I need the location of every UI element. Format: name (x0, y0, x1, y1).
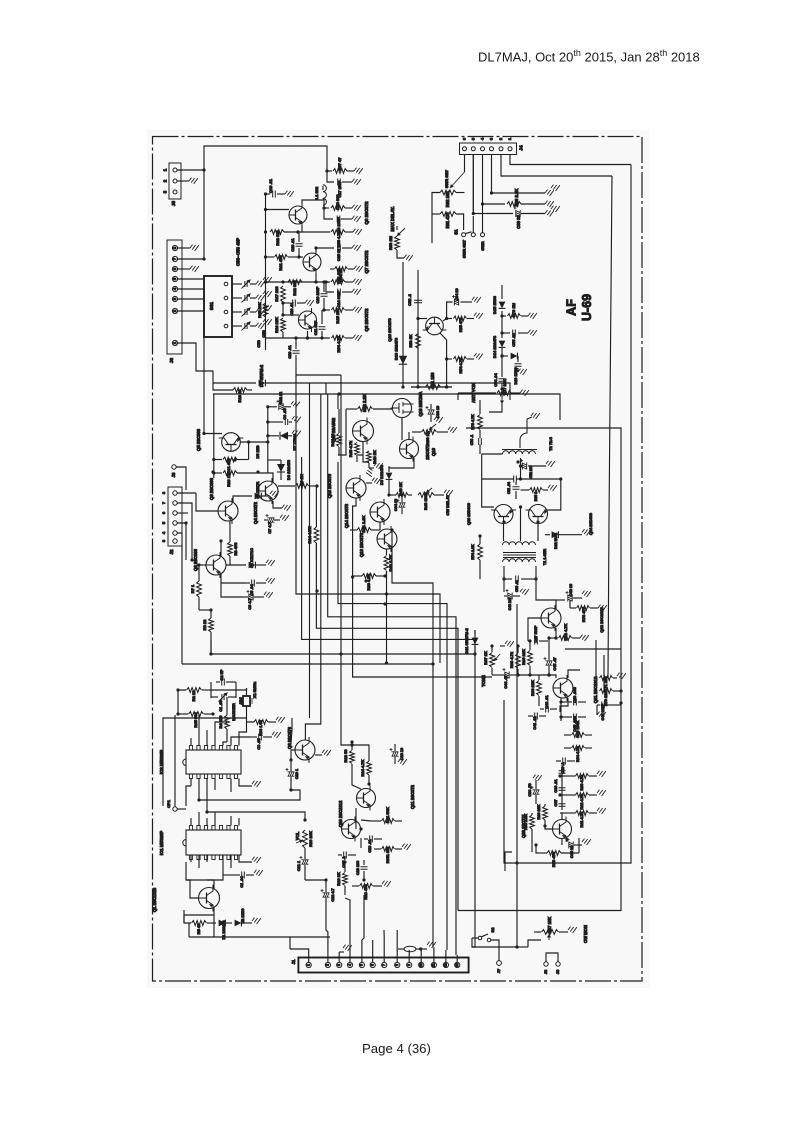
resistor R65 100K (572, 733, 585, 738)
wire S2 (472, 937, 478, 939)
box bottom right of Q22 (565, 648, 621, 650)
svg-text:R10 1W: R10 1W (226, 472, 231, 487)
capacitor C60 33 electrolytic (473, 155, 513, 214)
svg-text:J4: J4 (519, 145, 524, 151)
capacitor C11 39P (319, 327, 326, 330)
vertical wire x346 (338, 409, 346, 455)
transformer T2 winding (503, 451, 536, 454)
svg-text:S3 XZ171C: S3 XZ171C (250, 548, 254, 568)
svg-text:S1: S1 (454, 229, 459, 235)
svg-text:Q13 2SC373: Q13 2SC373 (359, 532, 364, 557)
svg-text:R60 2.2K: R60 2.2K (514, 189, 519, 207)
capacitor C19 200P vertical (321, 294, 328, 297)
svg-text:C17 150P: C17 150P (338, 180, 342, 197)
svg-text:MAX DELAY.: MAX DELAY. (390, 207, 395, 232)
resistor R951 650 (382, 847, 395, 852)
transistor Q13 2SC373 (377, 526, 397, 552)
svg-text:C7 4.7: C7 4.7 (268, 522, 272, 533)
potentiometer R20 10K VOL (303, 830, 308, 848)
junction (387, 493, 390, 496)
junction (500, 354, 503, 357)
junction (264, 192, 267, 195)
wire Q1 collector (207, 880, 214, 889)
svg-text:R61 470: R61 470 (278, 255, 283, 271)
svg-text:R13 22: R13 22 (237, 389, 242, 403)
resistor R13 22 (233, 388, 247, 393)
svg-text:U-69: U-69 (580, 294, 594, 321)
capacitor C16 .01 (283, 302, 290, 304)
resistor R62 4.7K ladder (562, 794, 576, 796)
svg-text:Q23 2SD380: Q23 2SD380 (467, 503, 471, 525)
svg-text:C1 .05: C1 .05 (219, 700, 223, 711)
svg-text:X1 5MHz: X1 5MHz (252, 682, 257, 698)
junction (516, 460, 519, 463)
svg-text:R42 2.2K: R42 2.2K (362, 394, 367, 412)
svg-text:Q1 2SC1318: Q1 2SC1318 (152, 887, 157, 912)
long wires from IC area right (246, 790, 300, 800)
svg-text:R44 22: R44 22 (330, 433, 335, 447)
wire base Q8 (266, 209, 290, 211)
diode D9 1S2473 (386, 473, 393, 480)
wire Q8 emitter (301, 226, 303, 232)
capacitor C41 .22 (535, 713, 538, 720)
resistor R54 4.7K (447, 358, 452, 360)
svg-text:C29 .01: C29 .01 (368, 839, 372, 852)
wire top rail into amp (266, 193, 271, 195)
junction (558, 774, 561, 777)
junction (324, 878, 327, 881)
connector J6 (167, 240, 182, 354)
svg-text:R77 10K: R77 10K (502, 379, 507, 395)
svg-text:Q20 2SC711: Q20 2SC711 (521, 813, 526, 838)
jack J9 key (556, 962, 560, 966)
resistor R4 220 vertical (225, 715, 230, 729)
wires Q2 block (221, 574, 246, 583)
diode D4 XZ171 (233, 496, 252, 502)
svg-text:R95 560: R95 560 (193, 712, 198, 728)
svg-text:C11 39P: C11 39P (314, 320, 318, 335)
svg-text:CP1: CP1 (166, 799, 171, 808)
svg-text:R15 10K: R15 10K (257, 302, 262, 318)
resistor R61 470 (275, 255, 288, 260)
diode D12 MV-2 (545, 534, 550, 536)
junction (209, 608, 212, 611)
ground at J6 pin8 (178, 247, 190, 249)
loop wire E (182, 663, 433, 665)
svg-text:R58 470: R58 470 (551, 851, 556, 867)
svg-text:C2 5P: C2 5P (219, 669, 224, 680)
svg-text:C48 100: C48 100 (508, 597, 512, 610)
wire J4 pin4 lower run (482, 204, 484, 225)
svg-text:R41 2.2K: R41 2.2K (361, 515, 366, 532)
svg-text:R2 22: R2 22 (191, 690, 196, 701)
transistor Q3 2SC368 (218, 498, 238, 524)
svg-text:D5 1N0: D5 1N0 (256, 446, 260, 459)
resistor R69 22K vertical (528, 651, 533, 666)
resistor R72 4.7K (555, 628, 557, 638)
wires ladder spine (561, 765, 563, 810)
svg-text:C1 .04: C1 .04 (240, 876, 244, 888)
svg-text:J5: J5 (171, 201, 176, 207)
capacitor C1 .047 (242, 872, 245, 879)
transistor Q12 2SC372 (357, 786, 376, 811)
svg-text:D15 1N60: D15 1N60 (492, 295, 497, 314)
svg-text:C14 300P: C14 300P (337, 290, 341, 307)
capacitor C40 .1 (563, 758, 566, 765)
capacitor C25 .1 (344, 852, 347, 859)
wire J6 pin1 run (178, 343, 213, 383)
junction (536, 520, 539, 523)
svg-text:R63 4.7K: R63 4.7K (580, 774, 584, 790)
svg-text:7: 7 (382, 964, 386, 966)
svg-text:R16 22K: R16 22K (274, 317, 279, 333)
right vertical to Q24 base (548, 479, 561, 510)
junction (315, 589, 318, 592)
svg-text:12: 12 (444, 963, 448, 967)
jack J7 mono (497, 961, 502, 966)
svg-text:C37: C37 (554, 800, 558, 807)
junction (184, 521, 187, 524)
left supply bus wire (265, 194, 267, 350)
svg-text:R70 4.7K: R70 4.7K (471, 414, 475, 430)
svg-text:C9 .05: C9 .05 (257, 738, 261, 749)
resistor R49 1K (396, 493, 408, 498)
wire down to Q5 base (203, 337, 205, 434)
svg-text:R72 4.7K: R72 4.7K (563, 623, 568, 640)
bottom right block left boundary (505, 852, 512, 871)
svg-text:2: 2 (326, 964, 330, 966)
transistor Q8 2SC372 (289, 203, 307, 227)
svg-text:C15 10: C15 10 (337, 249, 341, 261)
wire J4 pin3 to ground (492, 155, 546, 194)
svg-text:R57 47: R57 47 (337, 157, 342, 171)
long wire bottom left (189, 936, 330, 938)
capacitor C15 cluster (316, 248, 334, 252)
wire caps join (560, 698, 562, 721)
potentiometer R57 10K CW MON (517, 946, 528, 948)
svg-text:R46 1K: R46 1K (372, 450, 377, 464)
junction (547, 673, 550, 676)
T2 center tap (520, 458, 522, 479)
svg-text:R96 1 50: R96 1 50 (259, 720, 263, 735)
svg-text:C45 .47: C45 .47 (553, 657, 557, 670)
capacitor C13 300P lower (326, 282, 334, 292)
junction (367, 782, 370, 785)
resistor R11 470 (214, 459, 222, 461)
svg-text:J9: J9 (555, 969, 560, 974)
loop wire C staircase (392, 548, 433, 947)
svg-text:R22 56: R22 56 (343, 749, 348, 763)
svg-text:Q5 2SC368: Q5 2SC368 (196, 428, 201, 451)
diode D2 1N60 (226, 922, 232, 924)
svg-text:R62 10K: R62 10K (445, 191, 450, 208)
resistor R17 220 vertical (281, 286, 286, 302)
potentiometer R67 1K TONE (490, 653, 495, 668)
schematic border frame (153, 137, 643, 982)
FET Q18 2SK30A (391, 399, 414, 418)
junction (554, 636, 557, 639)
capacitor C44 .005 lower (574, 714, 577, 721)
svg-text:R62 4.7K: R62 4.7K (580, 793, 584, 809)
junction (516, 644, 519, 647)
long loop wire A (213, 382, 256, 384)
capacitor C9 .05 (259, 734, 262, 741)
rail y=282 with resistors (266, 281, 331, 283)
diode D11 SR1FM-2 (474, 630, 476, 634)
IC1 M5320P (186, 830, 241, 855)
resistor R55 4.7K (331, 230, 345, 235)
svg-text:C52 .2: C52 .2 (407, 293, 412, 306)
svg-text:R68 4.7k: R68 4.7k (509, 651, 514, 668)
resistor R51 150 (426, 385, 441, 390)
wire J4 pin1 right bus (510, 155, 631, 165)
resistor R60 22K vertical (543, 806, 548, 820)
svg-text:C23 100: C23 100 (356, 861, 360, 875)
resistor R61 4.7K ladder (562, 812, 576, 814)
svg-text:R6 22: R6 22 (202, 619, 207, 630)
capacitor C34 10 electrolytic (399, 503, 406, 507)
capacitor C44 .47 electrolytic (505, 672, 509, 679)
resistor R63 4.7K ladder (562, 775, 576, 777)
svg-text:R9 1K: R9 1K (299, 474, 304, 485)
transistor Q16 2SC372 (400, 437, 419, 462)
resistor R39 4.7K (362, 574, 376, 579)
svg-text:Q8 2SC372: Q8 2SC372 (364, 201, 369, 225)
junction (322, 280, 325, 283)
vertical wire C52 branch (417, 270, 419, 387)
wire Q9 collector top (305, 394, 320, 740)
wire Q20 emitter down (578, 838, 580, 853)
svg-text:R35 1: R35 1 (534, 492, 538, 502)
electrolytic by T2 (522, 463, 526, 470)
junction (289, 788, 292, 791)
svg-text:R29 1K: R29 1K (336, 872, 341, 886)
svg-text:Q21 2SC1312: Q21 2SC1312 (593, 676, 598, 703)
capacitor C13 200P (324, 208, 333, 219)
resistor R54 1K (330, 268, 334, 270)
svg-text:11: 11 (432, 963, 436, 967)
header date text (478, 48, 793, 64)
svg-text:R20 10K: R20 10K (308, 831, 313, 847)
ground at J6 pin6 (178, 268, 190, 270)
junction (364, 579, 367, 582)
junction (296, 230, 299, 233)
svg-text:D13 1N60: D13 1N60 (514, 367, 518, 384)
electrolytic C20 1 (288, 772, 295, 776)
transistor Q10 2SC1312 (342, 817, 361, 842)
svg-text:C44 .47: C44 .47 (504, 675, 508, 688)
transistor Q2 2SC360 (206, 552, 226, 578)
svg-text:C38 .50: C38 .50 (528, 783, 532, 796)
junction (490, 644, 493, 647)
connector J4 (460, 143, 517, 155)
capacitor C19 .01 (273, 191, 276, 198)
wire Q3 base (196, 493, 218, 511)
electrolytic C26 right (392, 752, 399, 756)
svg-text:J2: J2 (169, 549, 174, 554)
feeder x502 (489, 404, 502, 412)
svg-text:SWR SET: SWR SET (444, 169, 449, 188)
wire J5 pin1 to node (177, 169, 204, 171)
svg-text:R8 470: R8 470 (233, 542, 238, 556)
svg-text:8: 8 (395, 964, 399, 966)
svg-text:C19 .01: C19 .01 (268, 178, 273, 193)
svg-text:R51 620: R51 620 (336, 268, 341, 284)
wire top-left vertical/horizontal run (204, 146, 327, 259)
svg-text:D6 1S2473: D6 1S2473 (286, 459, 291, 480)
svg-text:C39 .01: C39 .01 (554, 779, 558, 792)
svg-text:D9 1S2473: D9 1S2473 (379, 464, 384, 485)
transistor Q1 2SC1318 (199, 885, 220, 912)
ground right of bead (421, 948, 427, 950)
wire J4 pin4 - R60 2.2K (483, 155, 506, 205)
resistor R57 47 top (327, 170, 332, 172)
svg-text:C42 .01: C42 .01 (545, 695, 549, 708)
transistor Q15 2SC373 (346, 475, 366, 501)
capacitor C38 .50 electrolytic (533, 790, 540, 794)
svg-text:1: 1 (307, 964, 311, 966)
diode D13 1N60 (502, 355, 508, 357)
short bus to R70 (603, 655, 605, 691)
diode D8 SRFM-2 (259, 380, 266, 387)
ground above T2 (527, 417, 532, 419)
svg-text:J6: J6 (169, 358, 174, 364)
IC1 pin wires (190, 818, 192, 826)
diode D14 1S2473 (499, 341, 506, 348)
svg-text:R64 4.7K: R64 4.7K (576, 746, 580, 762)
svg-text:Q14 2SC373: Q14 2SC373 (344, 503, 349, 528)
wires audio column (355, 808, 357, 829)
svg-text:D10 1S2473: D10 1S2473 (394, 337, 399, 360)
transformer T1 windings (503, 542, 536, 545)
staircase feeders from left (210, 640, 212, 654)
wire Q7 emitter to rail (315, 273, 317, 282)
svg-text:Q16: Q16 (431, 447, 436, 456)
svg-text:3: 3 (337, 964, 341, 966)
ground Q9 emitter (315, 754, 322, 756)
resistor R31 56K (382, 819, 395, 824)
resistor R51 620 (331, 280, 345, 285)
junction (315, 484, 318, 487)
svg-text:D14 1S2473: D14 1S2473 (492, 335, 497, 358)
svg-text:D8 SRFM-2: D8 SRFM-2 (259, 364, 264, 387)
wire IC to Q9 base (291, 718, 292, 744)
svg-text:C10 .01: C10 .01 (288, 345, 292, 358)
svg-text:T2 7k-8: T2 7k-8 (548, 436, 553, 451)
wire Q9 base (291, 750, 295, 760)
svg-text:R32 22: R32 22 (279, 392, 283, 404)
capacitor C35 10 electrolytic (566, 838, 568, 842)
inductor L1 102 (323, 185, 326, 205)
capacitor C47 500P (535, 638, 538, 645)
scan noise underlay (0, 0, 1, 1)
resistor R74 2.2K vertical (478, 544, 483, 560)
resistor R77 10K / ANTI VOX (500, 391, 503, 394)
junction (211, 470, 214, 473)
junction (534, 843, 537, 846)
junction (500, 387, 503, 390)
left long vertical wire (174, 715, 176, 807)
junction (558, 793, 561, 796)
switch S1 (462, 233, 466, 237)
junction (197, 563, 200, 566)
capacitor C42 .01 (546, 706, 549, 713)
left vertical to Q23 base (482, 454, 494, 507)
svg-text:R15 250: R15 250 (335, 308, 340, 324)
connector J7 (168, 487, 182, 546)
svg-text:C35 10: C35 10 (570, 846, 574, 858)
wire Q22 base (528, 618, 541, 641)
resistor R14 4.7K bottom (332, 336, 345, 341)
marker loop box (210, 682, 212, 698)
trimmer capacitor marker (222, 694, 224, 700)
IC1 surrounding loop (186, 862, 223, 880)
transistor Q4 2SC372 (258, 478, 278, 504)
resistor R61 470 (440, 212, 456, 217)
resistor R73 470 (577, 606, 590, 611)
ground above J1 (339, 951, 344, 953)
svg-text:R55 470: R55 470 (459, 318, 463, 332)
resistor R55 470 (447, 318, 452, 320)
resistor R41 2.2K (357, 528, 371, 533)
transistor Q21 2SC1312 (553, 675, 573, 701)
junction (362, 878, 365, 881)
svg-text:R60 22K: R60 22K (537, 804, 541, 819)
junction (400, 493, 403, 496)
capacitor C48 100 electrolytic (503, 579, 505, 592)
capacitor C5 .04 (252, 580, 255, 587)
ground R46 (369, 467, 374, 469)
resistor R44 22 vertical (337, 434, 342, 447)
svg-text:R5 47: R5 47 (196, 923, 201, 934)
capacitor C10 .01 (293, 351, 300, 354)
svg-text:J8: J8 (171, 472, 176, 477)
transistor Q22 2SC1318 (541, 605, 561, 631)
T1 leads (503, 524, 505, 542)
capacitor C2 5P (222, 679, 225, 686)
IC2 pin wires up (190, 738, 192, 746)
feeder to J1 region (472, 630, 475, 947)
svg-text:ADJ: ADJ (239, 697, 243, 704)
svg-text:CW DELAY: CW DELAY (445, 494, 450, 515)
wire Q22 collector (536, 579, 556, 609)
svg-text:R50 1K: R50 1K (425, 431, 430, 445)
svg-text:C58: C58 (256, 340, 261, 348)
svg-text:C50 .01: C50 .01 (515, 580, 519, 592)
wire to bottom rail (446, 359, 448, 387)
resistor R15 10K vertical (263, 303, 268, 317)
svg-text:C21 1: C21 1 (297, 861, 301, 871)
svg-text:R62 910: R62 910 (292, 280, 297, 296)
transistor Q19 2SC373 (418, 318, 427, 320)
junction (303, 818, 306, 821)
vertical wire x309 (309, 383, 311, 718)
svg-text:D4 XZ171: D4 XZ171 (256, 481, 260, 498)
wire J8-J9 loop (546, 953, 558, 962)
svg-text:R73 470: R73 470 (581, 606, 586, 622)
capacitor C43 .005 (574, 699, 577, 706)
junction (306, 336, 309, 339)
wire Q4 collector (268, 473, 273, 482)
svg-text:C47 500P: C47 500P (534, 625, 538, 642)
svg-text:R14 4.7K: R14 4.7K (307, 526, 312, 543)
loop wire B (213, 394, 560, 420)
resistor R9 1K (296, 484, 309, 489)
svg-text:C19 200P: C19 200P (316, 286, 320, 303)
resistor R96 1 50 (254, 720, 268, 725)
svg-text:SWR: SWR (480, 241, 485, 250)
svg-text:Q15 2SC373: Q15 2SC373 (327, 473, 332, 498)
